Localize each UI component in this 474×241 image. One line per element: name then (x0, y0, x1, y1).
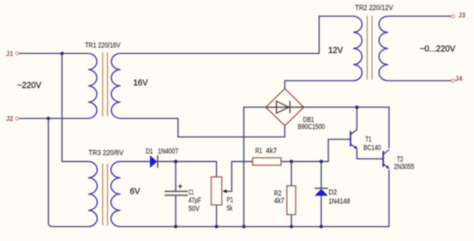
wire P1 wiper to R1 left (224, 162, 252, 192)
svg-text:TR1 220/16V: TR1 220/16V (85, 41, 121, 50)
junction P1 bottom on ground rail (215, 225, 218, 228)
svg-text:B80C1500: B80C1500 (298, 122, 325, 131)
junction C1 bottom on ground rail (174, 225, 177, 228)
transformer TR2 core line 2 (371, 16, 373, 80)
bridge rectifier DB1 outline (266, 89, 304, 126)
svg-text:1N4007: 1N4007 (158, 146, 179, 155)
junction R2 bottom on ground rail (290, 225, 293, 228)
transformer TR1 secondary winding (111, 53, 120, 118)
capacitor C1 plus sign (178, 184, 182, 188)
bridge DB1 inner diode cathode bar (289, 101, 291, 114)
transformer TR2 core line 1 (366, 16, 368, 80)
bridge DB1 inner diode line (266, 106, 304, 108)
potentiometer P1 wiper arrow (223, 189, 227, 193)
transformer TR3 core line 2 (107, 164, 109, 226)
diode D1 1N4007 triangle (150, 155, 157, 168)
pin circle J2 (16, 117, 19, 120)
svg-text:J2: J2 (6, 114, 13, 123)
svg-text:R1: R1 (255, 146, 262, 155)
junction R2 top tap (290, 160, 293, 163)
transformer TR3 secondary winding (111, 162, 120, 227)
svg-text:J1: J1 (6, 49, 13, 58)
wire TR3 secondary top to D1 anode (120, 161, 150, 163)
wire C1 top (175, 162, 177, 192)
transformer TR3 primary winding (88, 162, 97, 227)
wire R1 right to T1 base (281, 139, 351, 161)
junction N on J2 wire (47, 117, 50, 120)
svg-text:D2: D2 (329, 188, 338, 197)
wire TR2 primary bottom to bridge top (285, 81, 353, 89)
wire R2 bottom (290, 215, 292, 227)
wire TR1 secondary top to TR2 primary top (120, 16, 353, 53)
svg-text:2N3055: 2N3055 (394, 162, 414, 171)
transformer TR2 secondary winding (379, 16, 388, 81)
wire C1 bottom (175, 196, 177, 227)
svg-text:4k7: 4k7 (274, 196, 284, 205)
svg-text:J3: J3 (458, 11, 465, 20)
svg-text:16V: 16V (133, 78, 148, 88)
diode D1 cathode bar (157, 155, 159, 168)
wire rail D1 to P1 top (158, 162, 217, 177)
transformer TR1 primary winding (88, 53, 97, 118)
svg-text:J4: J4 (455, 74, 463, 83)
svg-text:TR3 220/6V: TR3 220/6V (89, 148, 124, 157)
diode D2 cathode bar (315, 187, 328, 189)
diode D2 1N4148 triangle (315, 189, 328, 196)
transformer TR3 core line 1 (102, 164, 104, 226)
transformer TR1 core line 2 (107, 53, 109, 117)
svg-text:BC140: BC140 (364, 143, 382, 152)
resistor R1 (253, 158, 281, 165)
wire J1 to TR1 primary top (19, 52, 88, 54)
wire T1 emitter to T2 base (357, 149, 383, 159)
svg-text:50V: 50V (189, 204, 200, 213)
transformer TR2 primary winding (353, 16, 362, 81)
svg-text:~0...220V: ~0...220V (420, 43, 456, 53)
wire TR2 secondary top to J3 (388, 15, 451, 17)
bridge DB1 inner diode triangle (276, 101, 289, 113)
wire D2 bottom (320, 196, 322, 227)
transistor T2 emitter lead (383, 164, 389, 169)
wire bridge minus to ground rail (244, 107, 266, 226)
wire P1 bottom (216, 205, 218, 227)
wire node N drop to TR3 primary bottom (48, 118, 88, 226)
capacitor C1 bottom plate (165, 194, 188, 196)
transistor T1 collector lead (351, 130, 357, 135)
svg-text:5k: 5k (227, 204, 233, 213)
junction bridge minus on ground rail (242, 225, 245, 228)
wire J2 to TR1 primary bottom (19, 117, 88, 119)
transistor T1 emitter lead (351, 144, 357, 149)
junction D2 top tap (320, 160, 323, 163)
junction L phase on J1 wire (60, 52, 63, 55)
transistor T1 base bar (350, 131, 352, 147)
svg-text:1N4148: 1N4148 (329, 197, 351, 206)
capacitor C1 top plate (165, 190, 188, 192)
wire node L vertical to TR3 primary top (62, 53, 88, 161)
transformer TR1 core line 1 (102, 53, 104, 117)
pin circle J3 (451, 15, 454, 18)
wire R2 top (290, 162, 292, 186)
svg-text:12V: 12V (328, 45, 343, 55)
pin circle J1 (16, 52, 19, 55)
wire D2 top (320, 162, 322, 189)
junction T1 collector on plus rail (355, 106, 358, 109)
transistor T2 base bar (382, 151, 384, 167)
svg-text:D1: D1 (146, 146, 153, 155)
junction D2 bottom on ground rail (320, 225, 323, 228)
svg-text:TR2 220/12V: TR2 220/12V (355, 3, 393, 12)
svg-text:6V: 6V (130, 186, 141, 196)
wire ground rail and T2 emitter (120, 170, 389, 227)
wire TR1 secondary bottom to bridge bottom (120, 118, 284, 136)
resistor R2 (287, 186, 296, 215)
junction C1 top tap (174, 160, 177, 163)
wire bridge plus rail to T2 collector (304, 107, 389, 148)
transistor T2 emitter arrow (386, 165, 389, 169)
svg-text:4k7: 4k7 (266, 146, 277, 155)
transistor T2 collector lead (383, 150, 389, 155)
potentiometer P1 body (211, 177, 222, 205)
wire T1 collector (356, 107, 358, 130)
wire TR2 secondary bottom to J4 (388, 80, 451, 82)
svg-text:~220V: ~220V (17, 80, 42, 90)
transistor T1 emitter arrow (354, 146, 357, 150)
pin circle J4 (451, 79, 454, 82)
